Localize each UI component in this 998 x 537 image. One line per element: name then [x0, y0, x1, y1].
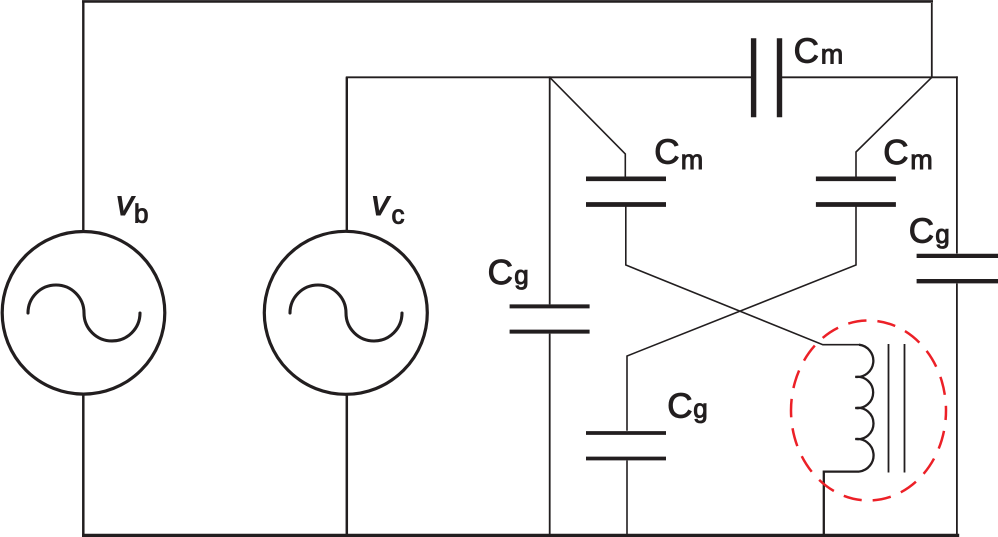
wire horizontal bus right segment — [782, 76, 958, 78]
svg-text:g: g — [514, 260, 528, 290]
capacitor Cm left plate top — [586, 176, 666, 181]
svg-text:v: v — [116, 184, 136, 223]
wire vertical x=550 from bus to Cg left — [549, 76, 551, 304]
wire vc bottom lead — [346, 394, 349, 535]
capacitor Cg right plate top — [917, 254, 998, 258]
wire below Cg right to bottom border — [956, 284, 958, 536]
wire below Cg bottom to border — [626, 461, 628, 536]
transformer core line 2 — [904, 344, 906, 473]
wire vc top lead — [346, 77, 348, 231]
capacitor Cg left plate bottom — [510, 330, 590, 334]
wire vb bottom lead — [82, 394, 85, 535]
capacitor Cg bottom plate bottom — [586, 457, 666, 461]
svg-text:g: g — [693, 394, 707, 424]
capacitor Cg left plate top — [510, 304, 590, 308]
wire from Cm right bottom through crossing to Cg bottom — [627, 207, 856, 431]
wire from Cm left bottom through crossing to inductor — [626, 207, 859, 345]
svg-text:C: C — [909, 212, 934, 251]
capacitor Cm left plate bottom — [586, 202, 666, 207]
wire top border — [82, 0, 933, 3]
wire top-right vertical from border — [931, 3, 933, 78]
capacitor Cm right plate bottom — [816, 202, 896, 207]
capacitor Cm top plate right — [777, 38, 782, 117]
wire below Cg left to bottom border — [549, 334, 551, 535]
svg-text:v: v — [372, 184, 392, 223]
svg-text:m: m — [910, 145, 933, 175]
source U vc (AC source circle) — [264, 231, 427, 394]
svg-text:C: C — [883, 133, 908, 172]
svg-text:m: m — [821, 40, 844, 70]
svg-text:m: m — [681, 145, 704, 175]
wire inductor bottom leg — [824, 472, 859, 535]
capacitor Cg right plate bottom — [917, 279, 998, 283]
sine symbol inside vc — [290, 285, 402, 341]
wire right branch down to Cg right — [956, 76, 958, 253]
svg-text:C: C — [667, 386, 692, 425]
capacitor Cm top plate left — [751, 38, 756, 117]
wire diagonal from node at (932,77) to Cm right — [856, 77, 932, 177]
wire horizontal bus left segment — [346, 76, 751, 78]
svg-text:C: C — [654, 133, 679, 172]
svg-text:g: g — [935, 219, 949, 249]
capacitor Cm right plate top — [816, 176, 896, 181]
red dashed highlight ellipse — [791, 321, 946, 501]
capacitor Cg bottom plate top — [586, 431, 666, 435]
svg-text:C: C — [488, 253, 513, 292]
inductor L coil — [855, 345, 873, 472]
svg-text:b: b — [134, 199, 148, 229]
transformer core line 1 — [888, 344, 890, 473]
svg-text:c: c — [392, 200, 405, 230]
svg-text:C: C — [794, 32, 819, 71]
source U vb (AC source circle) — [2, 231, 165, 394]
wire bottom border — [82, 534, 959, 537]
wire diagonal from node at (550,77) to Cm left — [550, 77, 626, 177]
sine symbol inside vb — [28, 285, 140, 341]
wire left vertical lead to source vb — [82, 2, 84, 232]
